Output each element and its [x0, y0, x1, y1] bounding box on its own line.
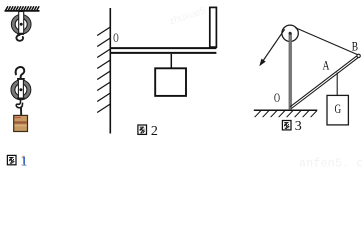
weight box (wooden crate) [14, 115, 28, 131]
pulley axle [289, 32, 292, 35]
wall hatching [97, 27, 110, 113]
lever beam OB (double line) [290, 56, 358, 108]
tip loop at B [357, 54, 360, 57]
watermark top (faint) [168, 5, 208, 27]
movable pulley axle [19, 88, 22, 91]
post [289, 33, 292, 109]
string to G [336, 73, 338, 96]
movable pulley bottom hook [16, 99, 22, 108]
rope to B (right) [295, 28, 357, 55]
wall line [109, 8, 111, 134]
ground hatching [255, 111, 317, 118]
label 图2 glyph [138, 125, 147, 134]
rope pulled (left) [261, 29, 285, 64]
movable pulley wheel [11, 80, 31, 100]
string from beam [170, 54, 172, 68]
fixed pulley axle [20, 23, 23, 26]
arrowhead [259, 59, 265, 67]
svg-text:G: G [335, 101, 342, 116]
pulley wheel [282, 25, 298, 41]
movable pulley strap bottom cap [17, 98, 25, 100]
movable pulley top hook [16, 67, 25, 78]
fixed pulley strap cap [17, 33, 24, 35]
fixed pulley hook [16, 35, 23, 41]
beam top line [110, 47, 216, 49]
fixed pulley wheel [12, 15, 31, 34]
svg-text:O: O [113, 30, 118, 45]
movable pulley strap [18, 79, 23, 98]
svg-text:2: 2 [151, 124, 158, 139]
svg-text:O: O [274, 91, 280, 105]
svg-text:zhuxue5: zhuxue5 [168, 5, 208, 27]
ceiling line [5, 10, 40, 12]
svg-text:1: 1 [21, 154, 28, 167]
svg-text:A: A [323, 59, 330, 73]
svg-text:3: 3 [295, 119, 302, 134]
label 图3 glyph [282, 121, 291, 130]
svg-text:anfen5. com: anfen5. com [299, 158, 362, 168]
weight G box [327, 95, 348, 125]
label 图1 glyph [7, 155, 16, 164]
upright bar at beam end [210, 7, 217, 47]
fixed pulley strap [19, 12, 24, 34]
svg-text:B: B [352, 39, 358, 53]
ground line [254, 109, 317, 111]
beam bottom line [110, 52, 216, 54]
movable pulley strap top cap [17, 78, 25, 80]
ceiling hatching [6, 6, 40, 10]
string to weight box [20, 108, 22, 116]
hanging weight [155, 68, 186, 96]
